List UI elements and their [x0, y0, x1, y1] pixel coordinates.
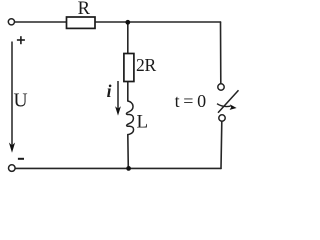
- resistor 2R: [124, 54, 134, 82]
- svg-text:L: L: [137, 111, 149, 132]
- plus sign: [17, 36, 25, 44]
- wire top horizontal: [15, 21, 221, 23]
- svg-text:t = 0: t = 0: [175, 91, 207, 111]
- switch terminal bottom: [219, 115, 225, 121]
- wire middle branch between 2R and L: [127, 82, 129, 102]
- source arrow U (down): [9, 42, 15, 153]
- wire middle branch lower: [127, 135, 130, 169]
- node bottom junction: [126, 166, 131, 171]
- switch motion arrow: [217, 104, 237, 110]
- wire right vertical upper: [220, 22, 222, 84]
- wire bottom horizontal: [15, 167, 221, 169]
- svg-text:2R: 2R: [136, 55, 156, 75]
- switch terminal top: [218, 84, 224, 90]
- terminal top-left: [8, 19, 14, 25]
- inductor L coil: [126, 101, 133, 135]
- svg-text:i: i: [107, 81, 112, 101]
- minus sign: [18, 158, 24, 160]
- svg-text:R: R: [78, 0, 91, 19]
- switch blade: [218, 90, 239, 113]
- resistor R: [67, 17, 96, 28]
- node top junction: [125, 20, 130, 25]
- terminal bottom-left: [9, 165, 16, 172]
- svg-text:U: U: [14, 90, 28, 111]
- wire right vertical lower: [220, 122, 223, 169]
- current arrow i: [115, 81, 121, 116]
- wire middle branch upper: [127, 22, 129, 54]
